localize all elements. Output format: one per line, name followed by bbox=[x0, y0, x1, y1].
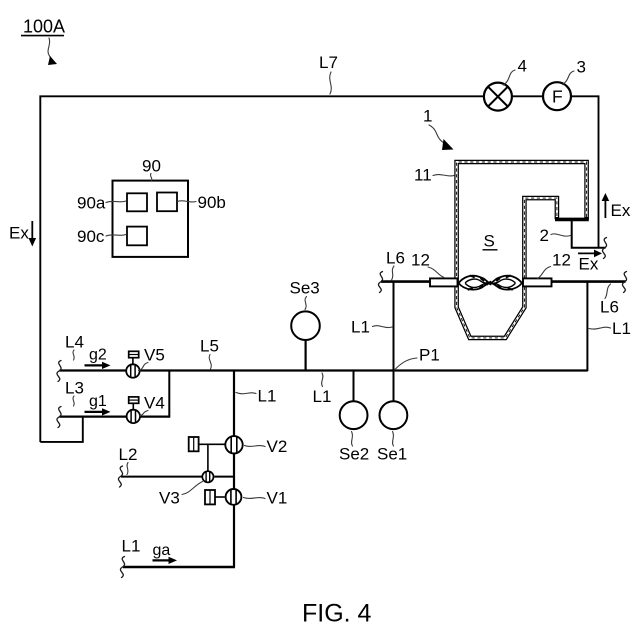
exhaust duct 2 from pocket bbox=[572, 220, 606, 248]
valve V2 with actuator bbox=[189, 436, 243, 453]
svg-text:L5: L5 bbox=[200, 337, 219, 356]
label ga with arrow bbox=[153, 542, 178, 564]
leader V1 bbox=[244, 498, 266, 499]
flame of right burner bbox=[491, 276, 522, 290]
svg-text:11: 11 bbox=[414, 166, 432, 185]
svg-text:V4: V4 bbox=[144, 394, 165, 413]
label Ex left with down arrow bbox=[9, 221, 36, 247]
leader L7 bbox=[330, 72, 332, 94]
furnace 1 walls (double wall with hatch) : outer wall + hopper + partition bbox=[457, 162, 587, 338]
svg-text:L3: L3 bbox=[65, 379, 84, 398]
break at L2 left end bbox=[118, 466, 122, 487]
svg-text:Se1: Se1 bbox=[377, 445, 407, 464]
svg-text:1: 1 bbox=[423, 107, 432, 126]
svg-text:L4: L4 bbox=[65, 333, 84, 352]
svg-text:100A: 100A bbox=[23, 17, 65, 37]
leader arrow 1 bbox=[429, 125, 454, 150]
leader V2 bbox=[245, 446, 266, 447]
pipe riser to valves V2/V1 and bottom L1 bbox=[233, 371, 235, 568]
leader 12 right bbox=[538, 267, 551, 279]
svg-text:12: 12 bbox=[552, 251, 571, 270]
svg-text:ga: ga bbox=[153, 542, 171, 559]
svg-text:L6: L6 bbox=[600, 298, 619, 317]
svg-text:90c: 90c bbox=[77, 227, 105, 246]
leader P1 bbox=[395, 358, 418, 370]
sensor Se1 bbox=[380, 401, 408, 429]
leader L6 right bbox=[605, 284, 611, 299]
label 100A with underline bbox=[21, 17, 65, 37]
svg-text:V5: V5 bbox=[144, 346, 165, 365]
leader 3 bbox=[563, 71, 575, 85]
leader Se2 bbox=[352, 432, 353, 447]
leader 90a bbox=[106, 201, 126, 203]
controller sub-box 90c bbox=[127, 227, 147, 246]
burner 12 right nozzle bbox=[523, 278, 552, 286]
leader 90 bbox=[150, 174, 151, 181]
leader Se1 bbox=[393, 432, 394, 447]
svg-text:Se2: Se2 bbox=[339, 445, 369, 464]
leader L2 bbox=[127, 463, 128, 475]
svg-text:V3: V3 bbox=[159, 489, 180, 508]
svg-text:g2: g2 bbox=[89, 347, 107, 364]
pressure sensor Se3 bbox=[291, 311, 320, 370]
svg-text:V1: V1 bbox=[267, 489, 288, 508]
controller sub-box 90b bbox=[157, 193, 177, 212]
svg-text:g1: g1 bbox=[89, 393, 107, 410]
right arrow Ex bottom bbox=[578, 250, 602, 274]
leader L1 main bbox=[322, 373, 323, 387]
pipe L1 riser right from L6 down to main line bbox=[586, 282, 588, 371]
controller sub-box 90a bbox=[127, 193, 147, 211]
svg-text:L6: L6 bbox=[386, 249, 405, 268]
svg-text:F: F bbox=[552, 87, 563, 107]
leader 12 left bbox=[428, 267, 444, 278]
svg-text:2: 2 bbox=[540, 226, 549, 245]
pipe L7 top line and left border of system bbox=[40, 96, 598, 442]
break at duct 2 outlet bbox=[602, 238, 606, 259]
svg-text:S: S bbox=[484, 232, 495, 251]
main pipe line L5/L1 horizontal bbox=[60, 369, 588, 371]
leader L4 bbox=[73, 350, 74, 360]
svg-text:90b: 90b bbox=[198, 193, 226, 212]
leader V4 bbox=[140, 411, 149, 417]
svg-text:Ex: Ex bbox=[579, 255, 599, 274]
valve V1 with actuator bbox=[205, 489, 241, 505]
svg-text:L1: L1 bbox=[122, 537, 141, 556]
leader L1 left riser bbox=[373, 326, 393, 328]
flow meter 3 (circle F) bbox=[543, 82, 571, 110]
label S underlined bbox=[483, 232, 498, 251]
leader L1 chain bbox=[236, 393, 256, 394]
flame of left burner bbox=[459, 276, 491, 290]
leader arrow from 100A bbox=[48, 38, 57, 65]
break at L4 left end bbox=[57, 361, 61, 382]
svg-text:FIG. 4: FIG. 4 bbox=[302, 600, 372, 628]
svg-text:L1: L1 bbox=[313, 387, 332, 406]
svg-text:3: 3 bbox=[577, 58, 586, 77]
leader 2 bbox=[551, 234, 571, 236]
leader 4 bbox=[504, 70, 516, 85]
sensor Se2 bbox=[340, 371, 368, 429]
burner 12 left nozzle bbox=[430, 278, 458, 286]
label g2 with arrow bbox=[85, 347, 111, 370]
pipe L1 riser from L6 left down to P1 and Se1 bbox=[393, 282, 395, 401]
valve 4 on L7 (circle with X) bbox=[484, 83, 512, 111]
svg-text:P1: P1 bbox=[419, 346, 440, 365]
break at L3 left end bbox=[57, 407, 61, 428]
leader L5 bbox=[209, 355, 211, 370]
riser joining L3 to L4 after V4 bbox=[168, 371, 170, 417]
svg-text:Ex: Ex bbox=[611, 201, 631, 220]
svg-text:L2: L2 bbox=[119, 445, 138, 464]
svg-text:L7: L7 bbox=[319, 53, 338, 72]
furnace pocket bottom closure bbox=[555, 218, 589, 222]
svg-text:90: 90 bbox=[142, 157, 161, 176]
leader Se3 bbox=[305, 297, 307, 310]
label g1 with arrow bbox=[85, 393, 111, 416]
up arrow Ex right bbox=[602, 193, 631, 220]
leader V5 bbox=[139, 363, 149, 371]
svg-text:12: 12 bbox=[411, 251, 430, 270]
svg-text:Ex: Ex bbox=[9, 224, 29, 243]
svg-text:V2: V2 bbox=[267, 437, 288, 456]
burner pipe L6 left bbox=[381, 280, 431, 283]
break at bottom L1 left end bbox=[120, 557, 124, 578]
burner pipe L6 right bbox=[552, 280, 626, 283]
leader 11 bbox=[433, 175, 454, 176]
pipe L3 line bbox=[60, 416, 171, 418]
pipe L2 bbox=[121, 476, 234, 478]
svg-text:L1: L1 bbox=[258, 387, 277, 406]
svg-text:90a: 90a bbox=[77, 194, 106, 213]
leader 90c bbox=[106, 235, 126, 237]
svg-text:L1: L1 bbox=[351, 318, 370, 337]
svg-text:Se3: Se3 bbox=[290, 279, 320, 298]
leader L6 left bbox=[392, 266, 395, 280]
break at L6 right end bbox=[622, 272, 626, 293]
bottom pipe L1 (ga inlet) bbox=[123, 566, 235, 568]
leader 90b bbox=[178, 201, 197, 202]
leader L3 bbox=[73, 396, 74, 406]
leader V3 bbox=[182, 482, 203, 495]
valve V3 with stem to V2 actuator arm bbox=[202, 444, 213, 482]
svg-text:L1: L1 bbox=[612, 319, 631, 338]
break at L6 left end bbox=[378, 272, 382, 293]
controller box 90 bbox=[113, 181, 189, 257]
valve V5 bbox=[126, 351, 139, 377]
svg-text:4: 4 bbox=[518, 57, 527, 76]
valve V4 bbox=[127, 397, 140, 423]
leader L1 right bbox=[589, 327, 611, 329]
